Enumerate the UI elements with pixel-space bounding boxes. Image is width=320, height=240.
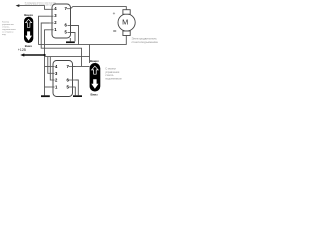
svg-text:Вверх: Вверх bbox=[24, 13, 33, 17]
svg-text:Вверх: Вверх bbox=[90, 59, 99, 63]
svg-text:Вниз: Вниз bbox=[91, 93, 99, 97]
svg-text:+: + bbox=[113, 11, 116, 16]
svg-text:вод.: вод. bbox=[2, 34, 7, 36]
svg-text:подъемником: подъемником bbox=[105, 78, 122, 81]
svg-text:стеклоподъемника: стеклоподъемника bbox=[132, 40, 159, 44]
svg-text:С кнопки: С кнопки bbox=[105, 66, 116, 70]
svg-text:блоке и замку зажигания авто: блоке и замку зажигания авто bbox=[25, 4, 55, 6]
svg-text:M: M bbox=[122, 18, 128, 27]
svg-text:Вниз: Вниз bbox=[25, 44, 33, 48]
svg-text:+12В: +12В bbox=[18, 48, 27, 52]
